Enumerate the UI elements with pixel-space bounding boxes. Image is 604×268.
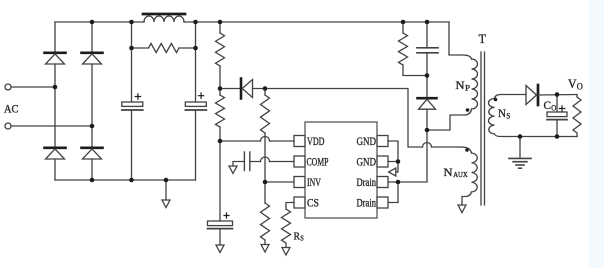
svg-text:N: N [444,165,453,179]
svg-text:INV: INV [307,175,321,189]
diode D2 (bridge upper-right) [82,53,103,64]
op-amp U1 body (controller IC) [305,122,377,218]
resistor R2 (startup divider lower) [216,89,225,142]
svg-text:N: N [498,106,506,120]
capacitor C3 (VDD bulk) [208,141,233,245]
wire AC line 2 [11,125,92,127]
wire hop over drain [423,143,432,148]
diode D4 (bridge lower-right) [82,148,103,159]
wire bottom rail [55,179,196,181]
svg-text:GND: GND [357,134,377,148]
resistor R4 (feedback lower) [261,182,270,245]
ground (IC GND, left arrow) [389,168,396,176]
wire hop VDD over feedback [261,137,270,142]
wire CS line [286,203,294,210]
capacitor Co (output) [547,95,567,137]
svg-text:VDD: VDD [307,134,325,148]
AC terminal 1 [5,84,11,90]
wire Naux top entry [461,147,472,153]
svg-text:CS: CS [307,196,319,210]
node Naux phase dot [465,148,469,152]
diode D1 (bridge upper-left) [45,53,66,64]
transformer primary Np [472,59,478,109]
pin tab Drain1 [377,177,388,188]
inductor L1 (line filter choke) [144,16,184,22]
ground (Rs) [282,248,290,256]
wire bridge left branch [54,22,56,180]
wire Naux bottom exit [462,192,472,205]
wire VDD supply node to diode [220,88,240,90]
transformer auxiliary Naux [472,153,478,192]
capacitor C5 (clamp) [417,22,438,76]
diode D3 (bridge lower-left) [45,148,66,159]
ground (bottom rail) [162,180,170,208]
wire INV line [265,181,294,183]
diode D5 (aux rectifier) [241,79,253,99]
wire choke left stub [131,22,133,48]
resistor R1 (startup divider upper) [216,22,225,89]
wire VDD line [220,140,294,142]
ground (feedback divider) [261,245,269,253]
svg-text:N: N [456,78,465,92]
svg-text:AUX: AUX [453,170,468,179]
node junction dots [53,20,560,185]
node secondary phase dot [494,98,498,102]
svg-text:V: V [568,77,577,91]
wire hop COMP over feedback [261,157,270,162]
pin tab GND1 [377,136,388,147]
wire aux line to Naux [432,146,462,148]
right margin tint [589,0,604,268]
wire primary bottom exit [427,109,472,130]
svg-text:C: C [544,98,552,112]
ground (VDD cap) [216,245,224,253]
wire COMP line [250,161,294,163]
wire aux supply line [253,89,423,148]
svg-text:P: P [465,83,470,93]
capacitor C4 (COMP) [233,152,250,171]
svg-text:O: O [551,103,556,113]
wire top rail [55,21,449,23]
wire drain to primary [398,130,427,182]
svg-text:S: S [506,111,510,121]
wire choke right stub [195,22,197,48]
svg-text:COMP: COMP [307,155,329,169]
wire secondary bottom exit [495,134,578,137]
wire AC line 1 [11,86,55,88]
node primary phase dot [466,108,470,112]
pin tab COMP [294,156,305,167]
ground (Naux) [458,205,466,213]
transformer core [481,52,485,205]
resistor Rs (current sense) [282,209,291,248]
wire secondary top exit [495,95,527,99]
svg-text:Drain: Drain [357,196,377,210]
resistor R5 (clamp) [399,22,428,76]
ground (COMP cap) [229,166,237,174]
diode D7 (output rectifier) [526,85,577,105]
svg-text:Drain: Drain [357,175,377,189]
svg-text:T: T [479,32,487,46]
wire bridge right branch [91,22,93,180]
wire GND pins junction [388,141,398,172]
pin tab GND2 [377,156,388,167]
resistor (filter damping) [149,44,180,53]
AC terminal 2 [5,123,11,129]
pin tab INV [294,177,305,188]
wire filter lower line [132,47,196,49]
svg-text:S: S [300,234,304,243]
capacitor C2 (bulk, right) [185,48,206,180]
svg-text:GND: GND [357,155,377,169]
resistor R6 (load) [573,95,581,137]
svg-text:AC: AC [4,102,19,116]
transformer secondary Ns [489,99,495,135]
diode D6 (clamp) [418,76,437,131]
resistor R3 (feedback upper) [261,89,270,183]
wire primary top entry [449,22,472,59]
svg-text:O: O [577,82,583,92]
capacitor C1 (bulk, left) [122,48,143,180]
pin tab Drain2 [377,197,388,208]
pin tab CS [294,197,305,208]
ground (secondary, earth) [509,137,531,169]
wire Drain pins junction [388,182,398,203]
choke core bar [143,13,185,16]
pin tab VDD [294,136,305,147]
